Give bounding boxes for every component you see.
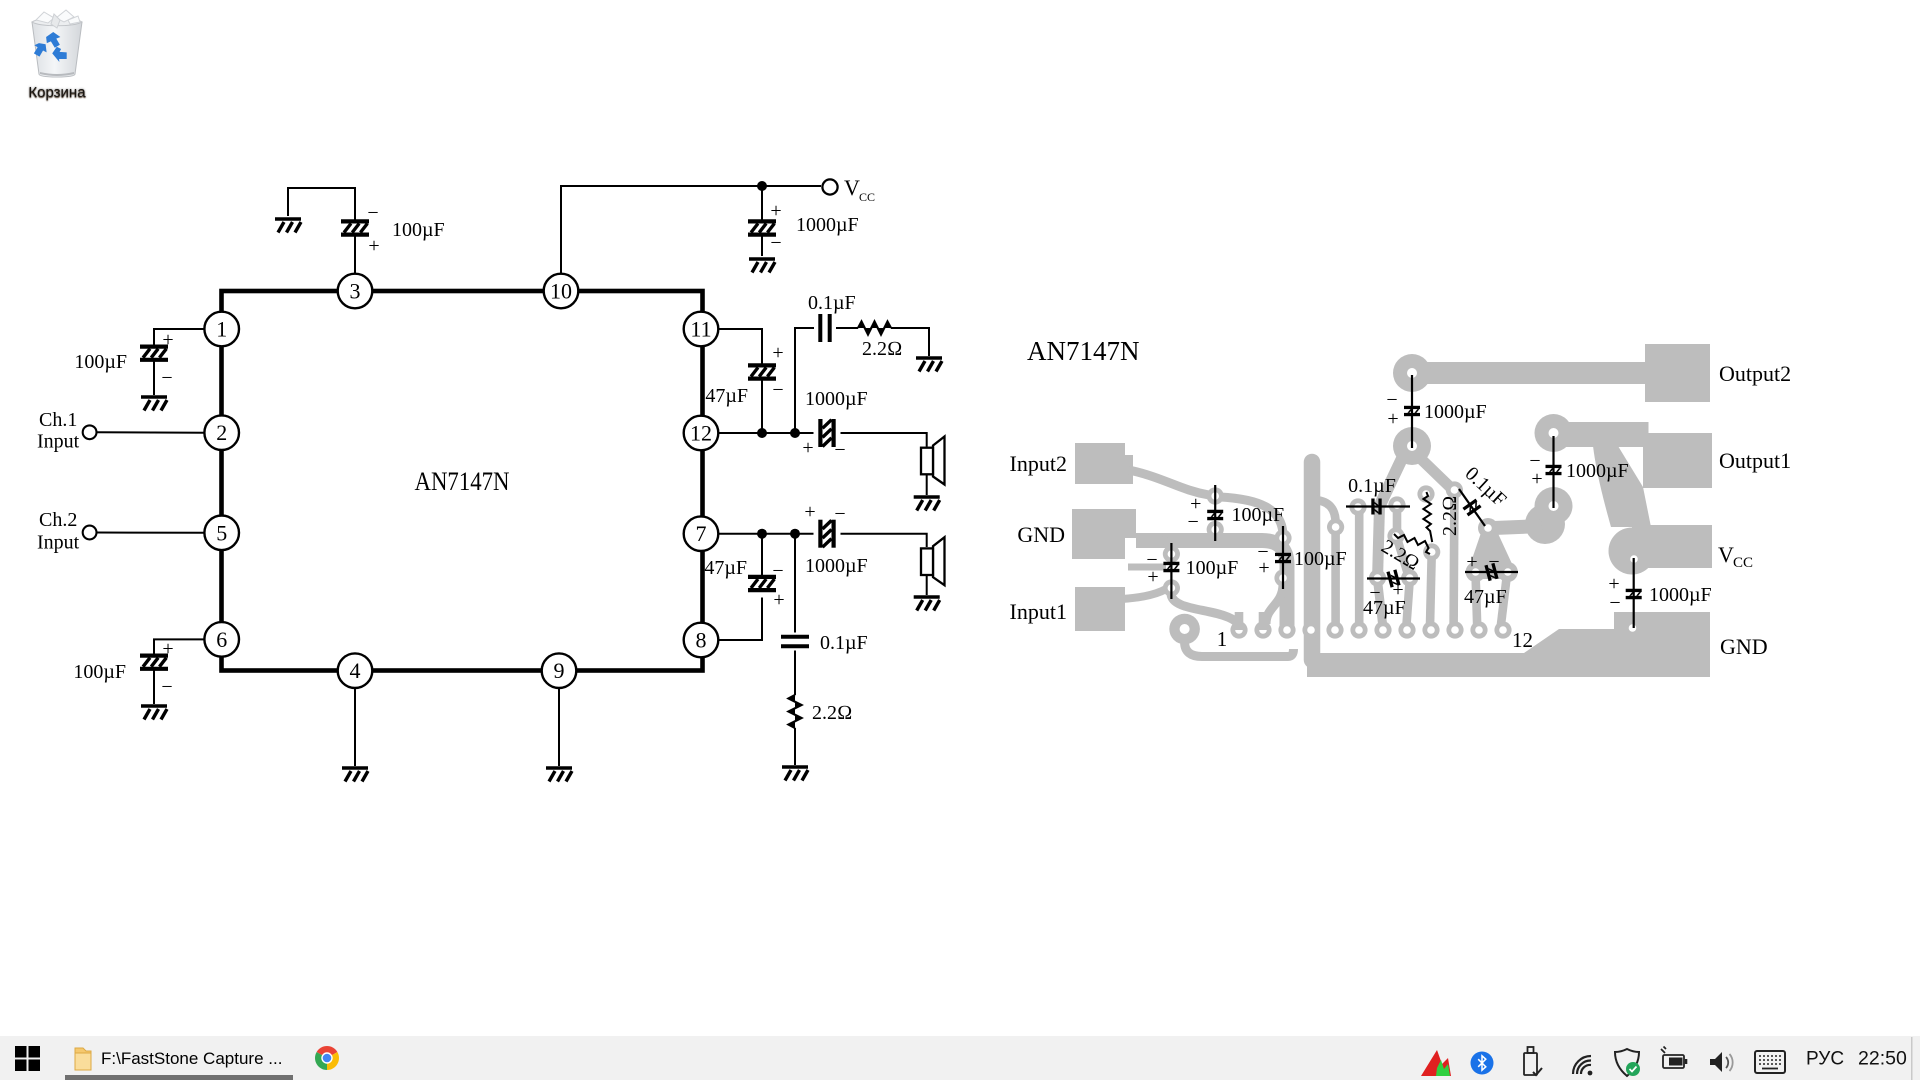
speaker SP1 <box>921 437 945 485</box>
svg-text:GND: GND <box>1017 522 1065 547</box>
svg-text:2.2Ω: 2.2Ω <box>862 338 902 360</box>
pcb capacitor C20 1000uF <box>1608 558 1711 628</box>
ground below C4 <box>141 706 167 720</box>
svg-text:3: 3 <box>350 279 361 304</box>
svg-text:100µF: 100µF <box>392 219 445 241</box>
svg-text:CC: CC <box>1733 555 1753 571</box>
pcb trace pad4 riser <box>1304 462 1321 660</box>
pcb pads C14 0.1uF <box>1349 496 1405 515</box>
capacitor C3 100uF (pin1) <box>74 329 173 389</box>
pcb pin row <box>1230 612 1511 639</box>
pin 12 <box>684 416 719 451</box>
pcb trace C11 top to C13 top <box>1220 497 1283 536</box>
svg-text:+: + <box>162 329 173 351</box>
pin 5 <box>204 516 239 551</box>
taskbar <box>0 1036 1920 1080</box>
pcb pad Vcc <box>1632 525 1712 568</box>
chrome icon <box>315 1046 339 1070</box>
svg-text:РУС: РУС <box>1806 1049 1844 1070</box>
svg-text:+: + <box>162 638 173 660</box>
pcb blob under Output1 <box>1470 504 1565 579</box>
node junction pin12 line B <box>790 428 800 438</box>
tray icon app <box>1421 1050 1451 1076</box>
pcb pads C16 47uF <box>1369 569 1418 586</box>
svg-text:+: + <box>770 200 781 222</box>
pcb trace pad10 riser <box>1449 494 1458 626</box>
pcb pads C18 1000uF <box>1393 354 1431 465</box>
pcb resistor R3 2.2ohm vertical <box>1423 492 1461 542</box>
svg-text:1000µF: 1000µF <box>805 388 868 410</box>
svg-text:100µF: 100µF <box>1294 548 1347 570</box>
capacitor C1 100uF (pin3) <box>341 202 445 257</box>
svg-text:2.2Ω: 2.2Ω <box>1439 496 1461 536</box>
svg-text:9: 9 <box>554 658 565 683</box>
svg-text:−: − <box>161 367 172 389</box>
pcb pads C15 diagonal <box>1446 481 1498 538</box>
wire pin7 line <box>718 534 926 547</box>
ground Zobel ch2 <box>782 767 808 781</box>
folder icon <box>75 1048 91 1070</box>
IC U1 AN7147N body <box>222 291 703 671</box>
wire pin3 to top-left ground <box>288 188 355 274</box>
Vcc terminal <box>822 175 875 204</box>
tray icon defender <box>1615 1049 1640 1076</box>
pcb trace bottom left <box>1185 642 1294 657</box>
svg-text:−: − <box>772 560 783 582</box>
svg-text:−: − <box>834 439 845 461</box>
ground speaker SP1 <box>914 497 940 511</box>
pcb label GND left <box>1017 522 1065 547</box>
pin1 wire left <box>154 329 205 395</box>
pcb label Output2 <box>1719 361 1791 386</box>
ground top-left <box>275 219 301 233</box>
pcb trace pad12 riser <box>1501 576 1507 626</box>
pcb resistor R4 2.2ohm diagonal <box>1377 534 1430 575</box>
pcb pads C12 100uF <box>1163 545 1180 596</box>
svg-text:+: + <box>1531 468 1542 490</box>
svg-text:5: 5 <box>216 520 227 545</box>
svg-text:47µF: 47µF <box>1363 597 1406 619</box>
pcb capacitor C12 100uF <box>1146 543 1238 599</box>
pcb trace pad11 riser <box>1476 576 1478 626</box>
pin9 ground wire <box>558 688 560 766</box>
svg-text:2: 2 <box>216 420 227 445</box>
svg-text:+: + <box>1387 408 1398 430</box>
ground pin4 <box>342 768 368 782</box>
svg-text:1000µF: 1000µF <box>805 555 868 577</box>
tray icon keyboard <box>1755 1051 1785 1073</box>
pcb capacitor C16 47uF <box>1363 569 1420 619</box>
node junction Vcc <box>757 181 767 191</box>
svg-text:100µF: 100µF <box>1232 504 1285 526</box>
svg-text:1000µF: 1000µF <box>796 214 859 236</box>
pcb pads C17 47uF <box>1466 562 1518 582</box>
wire speaker SP1 to ground <box>926 475 928 495</box>
svg-text:0.1µF: 0.1µF <box>1461 463 1511 512</box>
pcb trace pad9 riser <box>1430 554 1432 626</box>
ground below Vcc cap <box>749 259 775 273</box>
svg-text:+: + <box>804 501 815 523</box>
svg-text:8: 8 <box>696 628 707 653</box>
svg-text:Input1: Input1 <box>1010 599 1067 624</box>
svg-text:−: − <box>770 232 781 254</box>
svg-text:+: + <box>368 235 379 257</box>
pcb label pin12 <box>1512 628 1533 652</box>
svg-text:−: − <box>367 202 378 224</box>
node junction pin7 line B <box>790 529 800 539</box>
wire R1 to ground <box>891 328 929 356</box>
ground below C3 <box>141 397 167 411</box>
svg-text:Input: Input <box>37 431 80 453</box>
Ch.2 input terminal <box>37 509 97 554</box>
svg-text:1000µF: 1000µF <box>1566 460 1629 482</box>
resistor R1 2.2ohm (Zobel ch1) <box>858 322 902 361</box>
svg-text:−: − <box>161 676 172 698</box>
pcb pads C19 1000uF <box>1535 414 1573 525</box>
pcb capacitor C11 100uF <box>1188 485 1285 541</box>
pcb trace pad6 riser <box>1355 508 1364 626</box>
node junction pin12 line A <box>757 428 767 438</box>
tray icon usb <box>1524 1047 1542 1075</box>
pcb trace pad8 riser <box>1397 506 1410 626</box>
pin 11 <box>684 312 719 347</box>
pcb trace C12 bottom to pad1 <box>1171 594 1239 624</box>
svg-text:Ch.1: Ch.1 <box>39 409 77 431</box>
pcb trace GND bus <box>1136 541 1287 627</box>
pcb trace Output2 <box>1412 362 1648 384</box>
tray icon bluetooth <box>1471 1052 1494 1075</box>
tray icon volume <box>1710 1052 1733 1072</box>
svg-text:100µF: 100µF <box>73 661 126 683</box>
pcb trace pad7 riser to C16 <box>1378 450 1407 626</box>
tray icon network <box>1573 1056 1592 1075</box>
pcb trace Input1 to C12 <box>1122 567 1166 599</box>
svg-text:0.1µF: 0.1µF <box>1348 475 1396 497</box>
pcb label GND right <box>1720 634 1768 659</box>
svg-text:Input: Input <box>37 532 80 554</box>
recycle bin icon <box>24 8 90 80</box>
svg-text:V: V <box>1718 542 1734 567</box>
svg-text:0.1µF: 0.1µF <box>808 292 856 314</box>
svg-text:−: − <box>834 503 845 525</box>
ground Zobel ch1 <box>916 358 942 372</box>
svg-text:100µF: 100µF <box>1186 557 1239 579</box>
pcb trace C13 bottom to pad2 <box>1266 584 1283 624</box>
pin 9 <box>542 653 577 688</box>
capacitor C6 1000uF (pin12 output) <box>802 388 867 461</box>
pcb pad mount hole left <box>1169 614 1200 645</box>
pcb title AN7147N <box>1027 336 1140 366</box>
svg-text:Output2: Output2 <box>1719 361 1791 386</box>
pcb pads C11 100uF <box>1207 487 1224 538</box>
svg-text:+: + <box>1258 557 1269 579</box>
svg-text:−: − <box>1609 592 1620 614</box>
pcb hole Vcc cap bottom <box>1629 624 1637 632</box>
pcb label Vcc <box>1718 542 1753 571</box>
start button <box>15 1046 40 1071</box>
svg-text:2.2Ω: 2.2Ω <box>812 702 852 724</box>
capacitor C2 1000uF (Vcc) <box>748 200 859 254</box>
pin 7 <box>684 516 719 551</box>
svg-text:+: + <box>802 437 813 459</box>
wire R2 to ground <box>794 728 796 765</box>
svg-text:1000µF: 1000µF <box>1649 584 1712 606</box>
capacitor C5 47uF (pin11) <box>705 342 783 407</box>
resistor R2 2.2ohm (Zobel ch2) <box>789 695 853 728</box>
node junction pin7 line A <box>757 529 767 539</box>
pin4 ground wire <box>354 688 356 766</box>
svg-text:47µF: 47µF <box>704 557 747 579</box>
pin 10 <box>544 274 579 309</box>
svg-text:1: 1 <box>216 317 227 342</box>
tray icon battery <box>1661 1047 1687 1069</box>
pcb trace C12 top to GND bus <box>1160 540 1171 549</box>
pcb black overlays <box>1010 336 1792 659</box>
pin 2 <box>204 415 239 450</box>
pcb pad Input2 <box>1075 443 1133 484</box>
wire Vcc junction down <box>761 186 763 256</box>
pcb hole Vcc cap top <box>1630 555 1638 563</box>
svg-text:47µF: 47µF <box>1464 586 1507 608</box>
pcb pad Input1 <box>1075 587 1125 631</box>
svg-text:−: − <box>772 379 783 401</box>
svg-text:47µF: 47µF <box>705 385 748 407</box>
svg-text:0.1µF: 0.1µF <box>820 632 868 654</box>
pin 3 <box>338 274 373 309</box>
pcb trace Vcc elbow <box>1593 446 1656 575</box>
pcb ground plane <box>1307 612 1710 677</box>
pcb capacitor C13 100uF <box>1257 526 1346 589</box>
pcb pad Output2 <box>1645 344 1710 402</box>
wire junction pin7 down to 0.1uF <box>794 534 796 695</box>
svg-text:Output1: Output1 <box>1719 448 1791 473</box>
pcb pad Output1 <box>1643 433 1712 488</box>
ground pin9 <box>546 768 572 782</box>
pin6 wire left <box>154 639 205 704</box>
capacitor C9 47uF (pin8) <box>704 557 784 611</box>
pcb pad GND left <box>1072 509 1136 559</box>
speaker SP2 <box>921 537 945 585</box>
pcb pads C13 100uF <box>1274 529 1291 586</box>
capacitor C4 100uF (pin6) <box>73 638 173 698</box>
pin 8 <box>684 623 719 658</box>
svg-text:+: + <box>773 589 784 611</box>
wire junction B up to 0.1uF <box>795 328 858 433</box>
pcb capacitor C19 1000uF <box>1529 436 1628 508</box>
pcb trace Input2 to C11 <box>1129 470 1209 495</box>
svg-text:1000µF: 1000µF <box>1424 401 1487 423</box>
pin 1 <box>204 312 239 347</box>
svg-text:+: + <box>1147 566 1158 588</box>
svg-text:AN7147N: AN7147N <box>1027 336 1140 366</box>
svg-text:+: + <box>772 342 783 364</box>
pcb label pin1 <box>1217 627 1228 651</box>
pcb label Input1 <box>1010 599 1067 624</box>
pcb capacitor C14 0.1uF <box>1346 475 1410 515</box>
PCB <box>1010 336 1792 677</box>
svg-text:6: 6 <box>216 627 227 652</box>
wire pin12 line <box>718 433 926 447</box>
ground speaker SP2 <box>914 597 940 611</box>
svg-text:+: + <box>1466 551 1477 573</box>
wire speaker SP2 to ground <box>926 575 928 595</box>
capacitor C10 0.1uF (Zobel ch2) <box>781 632 868 654</box>
svg-text:22:50: 22:50 <box>1858 1048 1907 1070</box>
pcb pad R4 left <box>1387 527 1404 544</box>
pcb label Input2 <box>1010 451 1067 476</box>
pcb capacitor C18 1000uF <box>1386 375 1486 448</box>
pin 4 <box>338 653 373 688</box>
pcb trace C18 to C15 <box>1420 458 1450 487</box>
pin 6 <box>204 622 239 657</box>
svg-text:F:\FastStone Capture ...: F:\FastStone Capture ... <box>101 1049 282 1068</box>
svg-text:−: − <box>1188 511 1199 533</box>
wire pin10 to Vcc <box>561 186 821 274</box>
svg-text:12: 12 <box>1512 628 1533 652</box>
svg-text:1: 1 <box>1217 627 1228 651</box>
capacitor C8 1000uF (pin7 output) <box>804 501 867 577</box>
svg-text:Input2: Input2 <box>1010 451 1067 476</box>
pcb trace Output1 <box>1554 422 1649 447</box>
svg-text:7: 7 <box>696 521 707 546</box>
active task underline <box>65 1075 293 1080</box>
svg-text:GND: GND <box>1720 634 1768 659</box>
pcb pads R3 vertical <box>1417 485 1440 560</box>
svg-text:AN7147N: AN7147N <box>415 467 510 496</box>
wire Ch.2 to pin5 <box>97 532 205 534</box>
pin11 wire to C5 <box>718 329 762 433</box>
svg-text:−: − <box>1488 551 1499 573</box>
svg-text:4: 4 <box>350 658 361 683</box>
svg-text:11: 11 <box>690 317 711 342</box>
pcb label Output1 <box>1719 448 1791 473</box>
svg-text:12: 12 <box>690 421 712 446</box>
svg-text:CC: CC <box>859 190 875 204</box>
svg-text:V: V <box>844 175 860 200</box>
Ch.1 input terminal <box>37 409 97 453</box>
pin8 wire to C9 <box>718 534 762 640</box>
capacitor C7 0.1uF (Zobel ch1) <box>808 292 856 342</box>
svg-text:10: 10 <box>550 279 572 304</box>
pcb trace pad5 riser <box>1316 500 1344 626</box>
svg-text:100µF: 100µF <box>74 351 127 373</box>
svg-text:Ch.2: Ch.2 <box>39 509 77 531</box>
pcb capacitor C15 0.1uF diagonal <box>1459 463 1510 526</box>
wire Ch.1 to pin2 <box>97 431 205 433</box>
pcb capacitor C17 47uF <box>1464 551 1518 608</box>
